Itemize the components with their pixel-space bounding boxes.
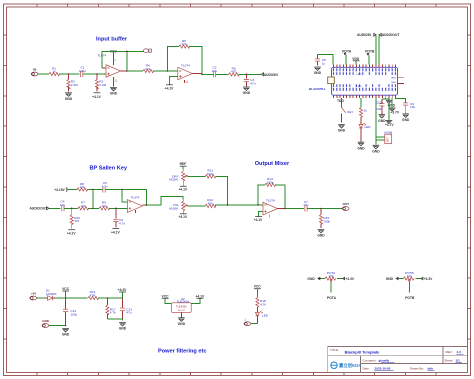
svg-text:Sheet:: Sheet: — [445, 358, 454, 362]
wire R7 to R9 — [88, 207, 99, 209]
module bottom pins — [334, 95, 396, 98]
capacitor C1 — [79, 66, 86, 77]
net label AUDIOOUT top — [379, 33, 399, 37]
node junction VCC — [65, 297, 67, 299]
pot POTB — [386, 271, 433, 300]
svg-text:Drawn By:: Drawn By: — [410, 366, 424, 370]
svg-text:+4.1V: +4.1V — [165, 86, 175, 90]
svg-text:VCC: VCC — [162, 294, 170, 298]
wire R4 to U1.2 — [153, 70, 178, 72]
svg-text:USB: USB — [385, 137, 388, 142]
wire C5 to feedback corner — [105, 190, 146, 206]
svg-text:AUDIOIN: AUDIOIN — [264, 73, 279, 77]
svg-text:1N4001: 1N4001 — [46, 292, 57, 296]
svg-text:+3.7V: +3.7V — [385, 123, 395, 127]
port OUT — [342, 202, 349, 210]
node junction feedback2 — [167, 70, 169, 72]
svg-text:47k: 47k — [182, 42, 187, 46]
svg-text:OUT: OUT — [343, 202, 350, 206]
svg-text:AUDIOIN: AUDIOIN — [357, 33, 372, 37]
resistor R15 shunt — [319, 209, 330, 229]
resistor R6 — [229, 66, 240, 76]
node junction C6 — [115, 208, 117, 210]
svg-text:POTA: POTA — [327, 296, 337, 300]
power flag +4.1V under DRY — [178, 186, 188, 191]
svg-text:1u: 1u — [322, 62, 326, 66]
node feedback left junction — [257, 204, 259, 206]
svg-text:+4.1V: +4.1V — [111, 230, 121, 234]
svg-text:KEY: KEY — [347, 110, 353, 114]
wire bottom rail R17/C13 — [107, 319, 122, 320]
plus input wire to +4.1V flag — [170, 77, 178, 85]
node feedback junction — [126, 51, 128, 53]
svg-text:+4.1V: +4.1V — [178, 188, 188, 192]
svg-text:C10: C10 — [376, 101, 382, 105]
plus input wire to +4.1V flag — [259, 211, 263, 216]
svg-text:10k: 10k — [80, 185, 85, 189]
switch KEY — [342, 107, 354, 122]
svg-text:10k: 10k — [81, 204, 86, 208]
module right pins PA12 PA11 — [398, 77, 405, 83]
node junction mid lower — [92, 208, 94, 210]
svg-text:GND: GND — [42, 319, 50, 323]
svg-text:10u: 10u — [410, 105, 415, 109]
power flag +3.7V lower — [385, 121, 395, 128]
wire SK out jog — [146, 197, 183, 206]
svg-text:IN OUT: IN OUT — [178, 310, 186, 312]
svg-text:hbh: hbh — [428, 366, 434, 370]
svg-text:10u: 10u — [212, 69, 217, 73]
wire C1 to op-amp — [83, 73, 106, 75]
net label AUDIOIN top — [357, 33, 376, 37]
op-amp U1.4 TL074 — [263, 199, 285, 218]
LED D3 — [359, 123, 371, 142]
net flag VCC — [62, 287, 70, 298]
svg-text:BP Sallen Key: BP Sallen Key — [90, 166, 128, 172]
port GND — [42, 319, 50, 328]
svg-text:3 B10: 3 B10 — [356, 86, 362, 88]
svg-text:4.7n: 4.7n — [102, 184, 108, 188]
resistor R10 shunt — [70, 208, 80, 228]
wire GND port to rail — [49, 325, 66, 327]
svg-text:Output Mixer: Output Mixer — [255, 161, 290, 167]
svg-text:10u: 10u — [303, 203, 308, 207]
node mixer junction — [227, 204, 229, 206]
flag REF above DRY pot — [180, 162, 187, 169]
svg-text:+4.1V: +4.1V — [67, 231, 77, 235]
net label AUDIOIN — [261, 73, 278, 77]
svg-text:+3.3V: +3.3V — [424, 277, 434, 281]
resistor R1 — [49, 66, 60, 75]
svg-text:嘉立创EDA: 嘉立创EDA — [338, 362, 362, 369]
svg-text:+4.1V: +4.1V — [92, 95, 102, 99]
wire DRY wiper to R11 — [188, 175, 205, 177]
LED D2 — [255, 311, 268, 324]
svg-text:Power filtering etc: Power filtering etc — [158, 349, 207, 355]
svg-text:+4.1V: +4.1V — [254, 218, 264, 222]
svg-text:LED: LED — [262, 313, 269, 317]
svg-text:100k: 100k — [267, 180, 274, 184]
svg-text:4.7n: 4.7n — [119, 221, 125, 225]
net flag +4.2V — [118, 288, 128, 298]
svg-text:+9V: +9V — [31, 291, 36, 295]
ground under C12 — [62, 328, 70, 336]
op-amp U1.2 TL074 — [178, 64, 202, 84]
resistor R19 — [359, 98, 367, 125]
title block — [328, 347, 468, 373]
capacitor C8 — [315, 55, 326, 66]
op-amp U1.1 TL074 — [97, 50, 126, 87]
ground under C10 — [378, 115, 386, 123]
svg-text:glowfly: glowfly — [379, 358, 390, 362]
port REF (oval) — [143, 49, 151, 53]
wire +9V to D1 — [37, 297, 46, 299]
svg-text:POTB: POTB — [405, 296, 415, 300]
svg-text:10k: 10k — [102, 204, 107, 208]
power flag +4.1V under C6 — [111, 229, 121, 235]
capacitor C13 — [120, 298, 132, 319]
svg-text:GND: GND — [307, 277, 315, 281]
svg-text:47k: 47k — [74, 219, 79, 223]
svg-text:VCC: VCC — [254, 285, 262, 289]
svg-text:4.7k: 4.7k — [110, 311, 116, 315]
svg-text:REV:: REV: — [446, 350, 453, 354]
svg-text:VCC: VCC — [62, 287, 70, 291]
node junction gnd chain — [388, 98, 390, 100]
svg-text:VUSB: VUSB — [384, 131, 392, 135]
svg-text:+3.3V: +3.3V — [345, 277, 355, 281]
capacitor C5 — [102, 181, 108, 192]
wire R12 to op-amp U1.4 minus — [215, 205, 263, 206]
wire flag to R8 — [67, 189, 77, 191]
svg-text:TL074: TL074 — [131, 196, 140, 200]
ground under C8 — [314, 67, 322, 75]
feedback wire U1.4 — [258, 185, 285, 209]
node junction SK out — [146, 204, 148, 206]
capacitor C6 — [113, 208, 125, 227]
svg-text:1k: 1k — [364, 109, 368, 113]
wire R6 to AUDIOIN label — [239, 73, 262, 75]
module top pins — [334, 65, 396, 68]
ground under op-amp U1.1 — [110, 87, 118, 95]
svg-text:2.2M: 2.2M — [71, 83, 78, 87]
svg-text:4.7k: 4.7k — [260, 303, 266, 307]
wire VBUS vertical — [376, 98, 385, 145]
svg-text:10u: 10u — [60, 203, 65, 207]
feedback wire U1.2 — [167, 47, 202, 75]
net flag GND mid — [386, 98, 396, 120]
svg-text:+4.2V: +4.2V — [118, 288, 128, 292]
port +9V — [30, 291, 37, 300]
svg-text:Input buffer: Input buffer — [96, 36, 128, 42]
resistor R3 — [95, 74, 106, 91]
net flag VCC pc13 — [254, 285, 262, 298]
wire R8 to C5 — [87, 189, 103, 191]
wire C8 to module — [318, 55, 334, 65]
node junction C3 — [246, 74, 248, 76]
wire U1.2 out to C2 — [202, 73, 213, 75]
wire R1 to C1 — [59, 73, 80, 75]
svg-text:2.2M: 2.2M — [99, 83, 106, 87]
svg-text:BLACKPILL: BLACKPILL — [309, 87, 326, 91]
svg-text:10k: 10k — [329, 274, 334, 278]
power flag +4.1V out — [195, 294, 205, 298]
wire C7 to OUT port — [307, 208, 342, 210]
power flag +3.7V pin right — [389, 98, 400, 115]
svg-text:TLE2426: TLE2426 — [176, 304, 187, 308]
svg-text:100n: 100n — [79, 69, 86, 73]
net flag VCC feed — [162, 294, 172, 303]
module usb square — [328, 77, 335, 84]
capacitor C3 — [244, 74, 256, 86]
power flag +4.1V feed — [54, 187, 67, 192]
diode D1 1N4001 — [46, 289, 57, 301]
port PC13 — [244, 317, 251, 325]
power flag +4.1V under R3 — [92, 93, 102, 99]
svg-text:47k: 47k — [145, 67, 150, 71]
svg-text:Date:: Date: — [363, 366, 370, 370]
resistor R17 shunt — [106, 298, 116, 319]
node junction R10 — [71, 208, 73, 210]
wire U1.4 out to C7 — [285, 208, 304, 210]
resistor R14 — [88, 290, 99, 299]
svg-text:LED: LED — [365, 125, 372, 129]
node junction minus branch — [121, 189, 123, 191]
node junction bottom rail — [65, 325, 67, 327]
resistor R4 — [143, 64, 154, 73]
wire AUDIOOUT to C4 — [49, 207, 61, 209]
net flag POTB top — [365, 50, 375, 65]
wire VOL wiper to R12 — [188, 205, 205, 207]
svg-text:+3.7V: +3.7V — [390, 110, 400, 114]
svg-text:POTB: POTB — [365, 50, 375, 54]
capacitor C10 — [375, 98, 389, 114]
svg-text:1/1: 1/1 — [456, 358, 461, 362]
svg-text:TLE2426: TLE2426 — [176, 299, 189, 303]
power flag +4.1V under R10 — [67, 230, 77, 236]
capacitor C12 — [63, 298, 78, 326]
resistor R8 — [77, 182, 88, 191]
module U3 BLACKPILL body — [309, 67, 398, 95]
svg-text:TL074: TL074 — [181, 64, 190, 68]
svg-text:TITLE:: TITLE: — [330, 348, 339, 352]
svg-text:REF: REF — [180, 162, 187, 166]
ground under C3 — [243, 87, 251, 95]
node U1.2 output junction — [201, 74, 203, 76]
wire TLE2426 out to +4.1V flag — [191, 298, 200, 303]
svg-text:47n: 47n — [250, 82, 255, 86]
ground under TLE2426 — [180, 312, 182, 317]
svg-text:AUDIOOUT: AUDIOOUT — [30, 207, 48, 211]
svg-text:47R: 47R — [90, 293, 96, 297]
wire C2 to R6 — [216, 73, 229, 75]
logo — [331, 362, 362, 369]
connector J1 VUSB — [384, 131, 392, 144]
svg-text:100k: 100k — [207, 172, 214, 176]
svg-text:AUDIOOUT: AUDIOOUT — [382, 33, 400, 37]
svg-text:TDO: TDO — [337, 99, 344, 103]
svg-text:+4.1V: +4.1V — [195, 294, 205, 298]
feedback wire U1.1 — [102, 51, 143, 71]
svg-text:+4.1V: +4.1V — [178, 215, 188, 219]
wire R14 to +4.2V node — [98, 297, 123, 299]
wire C4 to R7 — [64, 207, 78, 209]
ground under C13 — [119, 323, 127, 331]
svg-text:100n: 100n — [375, 107, 382, 111]
svg-text:+4.15V: +4.15V — [54, 188, 65, 192]
resistor R12 — [205, 198, 216, 207]
capacitor C7 — [303, 200, 308, 212]
wire AUDIOIN down to module — [375, 36, 377, 65]
svg-text:A100K: A100K — [169, 178, 179, 182]
ground under LED — [357, 142, 365, 150]
svg-text:Company:: Company: — [363, 358, 377, 362]
potentiometer DRY A100K — [169, 170, 188, 187]
capacitor C4 — [60, 200, 65, 212]
ground under R15 — [317, 230, 325, 238]
node junction SK mid — [92, 189, 94, 191]
net flag TDO — [337, 98, 344, 107]
wire IN to R1 — [38, 73, 49, 75]
svg-text:PA11: PA11 — [391, 81, 397, 84]
wire AUDIOOUT down to module — [378, 36, 380, 65]
wire down to minus input — [122, 190, 127, 202]
capacitor C2 — [212, 66, 217, 78]
svg-text:1k: 1k — [52, 70, 56, 74]
node junction at R3 — [96, 73, 98, 75]
power flag +4.1V under VOL — [178, 214, 188, 219]
ground under KEY — [338, 125, 346, 133]
node junction at R2 — [68, 73, 70, 75]
wire SK vertical — [92, 190, 94, 209]
potentiometer VOL A100K — [169, 200, 188, 214]
node junction R15 — [320, 208, 322, 210]
svg-text:A100K: A100K — [169, 206, 179, 210]
capacitor C9 — [395, 98, 415, 114]
resistor R5 — [179, 39, 190, 48]
svg-text:47u: 47u — [126, 311, 131, 315]
ground under R2 — [65, 93, 73, 101]
resistor R7 — [78, 201, 89, 210]
net label AUDIOOUT — [30, 207, 49, 211]
svg-text:2022-10-05: 2022-10-05 — [375, 366, 391, 370]
ground under VBUS wire — [372, 145, 380, 153]
resistor R13 feedback — [265, 177, 276, 186]
net flag POTA top — [342, 49, 352, 64]
node U1.4 output junction — [284, 208, 286, 210]
svg-text:GND: GND — [386, 277, 394, 281]
wire U1.1 out to R4 — [127, 70, 143, 72]
node junction R17 — [107, 297, 109, 299]
pot POTA — [307, 271, 354, 300]
ground under C9 — [402, 114, 410, 122]
svg-text:470: 470 — [231, 70, 236, 74]
resistor R2 — [67, 74, 78, 91]
svg-text:5 B12: 5 B12 — [356, 74, 362, 76]
svg-text:47k: 47k — [208, 201, 213, 205]
svg-text:IN: IN — [33, 68, 36, 72]
svg-text:100u: 100u — [70, 313, 77, 317]
net flag VDD — [352, 57, 360, 65]
svg-text:VDD: VDD — [352, 57, 360, 61]
wire R9 to op-amp plus — [109, 207, 127, 209]
op-amp U1.3 TL074 — [127, 196, 149, 213]
svg-text:PA12: PA12 — [391, 76, 397, 79]
power flag +4.1V under U1.2 — [165, 85, 175, 91]
wire R11 to mixer junction — [215, 176, 227, 204]
resistor R18 — [256, 298, 267, 313]
svg-text:1.0: 1.0 — [457, 350, 462, 354]
svg-text:POTA: POTA — [342, 49, 352, 53]
svg-text:100k: 100k — [323, 219, 330, 223]
resistor R11 — [205, 169, 216, 178]
module pin name rows — [334, 68, 396, 91]
wire PC13 port to LED — [251, 323, 258, 325]
port IN — [31, 68, 38, 76]
wire D1 to R14 — [55, 297, 87, 299]
regulator U2 TLE2426 — [171, 297, 191, 312]
resistor R9 — [99, 201, 110, 210]
svg-text:Blackpill Template: Blackpill Template — [345, 349, 381, 354]
svg-text:10k: 10k — [407, 274, 412, 278]
svg-text:TL074: TL074 — [266, 199, 275, 203]
power flag +4.1V under U1.4 — [254, 217, 264, 223]
